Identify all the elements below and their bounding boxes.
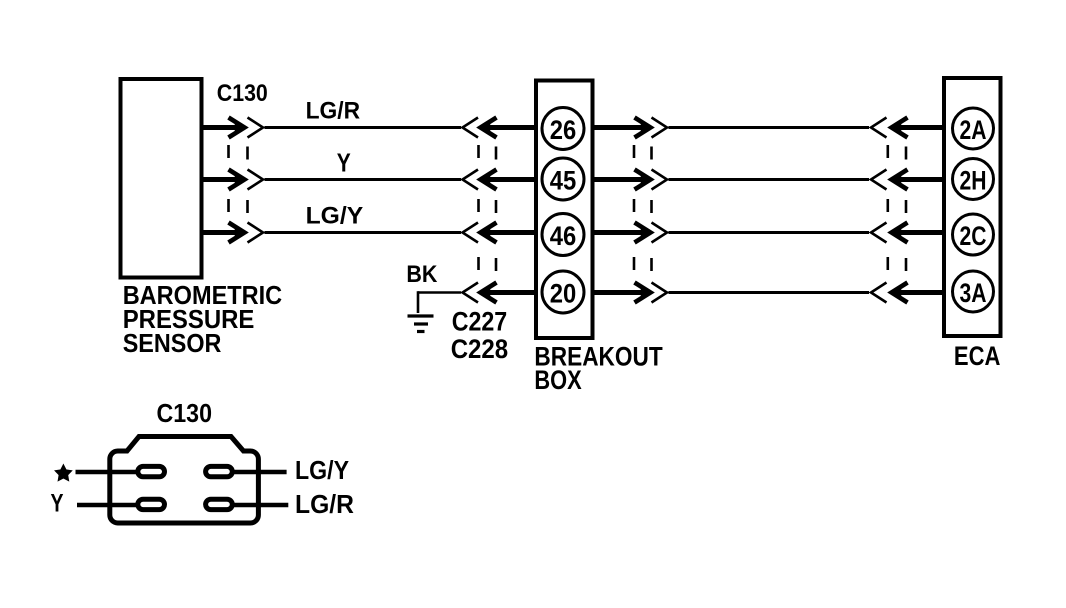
breakout pin 46 bbox=[542, 214, 584, 256]
wire Y long run bbox=[265, 178, 462, 181]
svg-text:3A: 3A bbox=[960, 278, 987, 308]
connector C227/C228 bold chevron row4 bbox=[481, 283, 497, 303]
thick stub into ECA row2 bbox=[898, 177, 944, 182]
svg-text:C130: C130 bbox=[217, 80, 268, 107]
breakout-right connector bold chevron row4 bbox=[635, 283, 651, 303]
thick stub into breakout box row2 bbox=[487, 177, 537, 182]
breakout-right connector dashed line 2 bbox=[650, 147, 653, 272]
svg-text:C130: C130 bbox=[157, 400, 213, 428]
svg-text:Y: Y bbox=[51, 490, 64, 518]
long wire breakout to ECA row1 bbox=[669, 126, 870, 129]
ECA pin 2H bbox=[953, 159, 994, 200]
connector C227/C228 thin chevron row1 bbox=[463, 118, 479, 138]
thick stub into breakout box row1 bbox=[487, 125, 537, 130]
breakout-right connector thin chevron row2 bbox=[652, 170, 668, 190]
svg-text:2H: 2H bbox=[960, 165, 987, 195]
ECA pin 2A bbox=[953, 108, 994, 149]
ECA connector dashed line 1 bbox=[886, 145, 889, 270]
svg-text:20: 20 bbox=[550, 278, 577, 308]
connector C130 pin slot top-left bbox=[138, 466, 165, 476]
ECA box bbox=[944, 78, 1001, 336]
svg-text:26: 26 bbox=[550, 115, 577, 145]
connector C227/C228 thin chevron row2 bbox=[463, 170, 479, 190]
ECA connector thin chevron row1 bbox=[871, 118, 887, 138]
wire LG/R pin bbox=[232, 503, 288, 508]
ECA connector bold chevron row4 bbox=[892, 283, 908, 303]
connector C130 pin slot top-right bbox=[206, 466, 233, 476]
svg-text:46: 46 bbox=[550, 221, 577, 251]
barometric pressure sensor box bbox=[121, 79, 202, 278]
connector C130 bold chevron row1 bbox=[229, 118, 245, 138]
svg-text:LG/Y: LG/Y bbox=[295, 455, 349, 485]
wire Y pin bbox=[77, 503, 138, 508]
wire BK drop bbox=[417, 291, 420, 313]
svg-text:BOX: BOX bbox=[534, 365, 581, 395]
wire stub from sensor row2 bbox=[202, 177, 241, 182]
breakout pin 45 bbox=[542, 158, 584, 200]
svg-text:2A: 2A bbox=[960, 115, 987, 145]
connector C227/C228 dashed line 1 bbox=[477, 145, 480, 270]
thick stub into breakout box row3 bbox=[487, 230, 537, 235]
connector C130 dashed line 1 bbox=[227, 145, 230, 212]
breakout-right connector dashed line 1 bbox=[633, 145, 636, 270]
breakout-right connector bold chevron row2 bbox=[635, 170, 651, 190]
connector C130 dashed line 2 bbox=[246, 147, 249, 214]
ECA connector bold chevron row1 bbox=[892, 118, 908, 138]
connector C130 bold chevron row2 bbox=[229, 170, 245, 190]
long wire breakout to ECA row4 bbox=[669, 291, 870, 294]
long wire breakout to ECA row3 bbox=[669, 231, 870, 234]
wire stub from sensor row3 bbox=[202, 230, 241, 235]
ECA pin 3A bbox=[953, 271, 994, 312]
connector C130 thin chevron row1 bbox=[248, 118, 264, 138]
breakout-right connector thin chevron row4 bbox=[652, 283, 668, 303]
star mark bbox=[56, 465, 72, 480]
thick stub into ECA row3 bbox=[898, 230, 944, 235]
connector C130 bold chevron row3 bbox=[229, 223, 245, 243]
breakout-right connector bold chevron row3 bbox=[635, 223, 651, 243]
connector C130 pin slot bottom-left bbox=[138, 499, 165, 509]
svg-text:LG/R: LG/R bbox=[306, 98, 361, 125]
svg-text:C227: C227 bbox=[452, 306, 508, 336]
svg-text:2C: 2C bbox=[960, 221, 987, 251]
svg-text:LG/Y: LG/Y bbox=[306, 203, 364, 230]
ECA connector dashed line 2 bbox=[905, 147, 908, 272]
ECA connector bold chevron row3 bbox=[892, 223, 908, 243]
connector C130 thin chevron row3 bbox=[248, 223, 264, 243]
thick stub out of breakout box row1 bbox=[593, 125, 648, 130]
thick stub out of breakout box row4 bbox=[593, 290, 648, 295]
long wire breakout to ECA row2 bbox=[669, 178, 870, 181]
ECA connector bold chevron row2 bbox=[892, 170, 908, 190]
wire star pin bbox=[76, 470, 139, 475]
svg-text:45: 45 bbox=[550, 165, 577, 195]
connector C130 pin slot bottom-right bbox=[206, 499, 233, 509]
svg-text:C228: C228 bbox=[451, 334, 509, 364]
connector C227/C228 bold chevron row1 bbox=[481, 118, 497, 138]
wire LG/Y long run bbox=[265, 231, 462, 234]
breakout-right connector thin chevron row3 bbox=[652, 223, 668, 243]
connector C227/C228 bold chevron row3 bbox=[481, 223, 497, 243]
thick stub into breakout box row4 bbox=[487, 290, 537, 295]
connector C130 body outline bbox=[110, 437, 259, 524]
svg-text:Y: Y bbox=[337, 148, 351, 178]
breakout pin 20 bbox=[542, 271, 584, 313]
ground symbol bbox=[408, 316, 434, 332]
ECA connector thin chevron row2 bbox=[871, 170, 887, 190]
thick stub into ECA row4 bbox=[898, 290, 944, 295]
breakout-right connector thin chevron row1 bbox=[652, 118, 668, 138]
connector C227/C228 thin chevron row3 bbox=[463, 223, 479, 243]
wire stub from sensor row1 bbox=[202, 125, 241, 130]
ECA connector thin chevron row3 bbox=[871, 223, 887, 243]
connector C227/C228 bold chevron row2 bbox=[481, 170, 497, 190]
ECA connector thin chevron row4 bbox=[871, 283, 887, 303]
ECA pin 2C bbox=[953, 214, 994, 255]
svg-text:SENSOR: SENSOR bbox=[123, 328, 222, 358]
wire LG/Y pin bbox=[232, 470, 287, 475]
breakout pin 26 bbox=[542, 108, 584, 150]
connector C227/C228 dashed line 2 bbox=[495, 147, 498, 272]
svg-text:LG/R: LG/R bbox=[295, 489, 354, 519]
breakout-right connector bold chevron row1 bbox=[635, 118, 651, 138]
svg-text:BK: BK bbox=[406, 261, 438, 288]
wire LG/R long run bbox=[265, 126, 462, 129]
thick stub into ECA row1 bbox=[898, 125, 944, 130]
connector C227/C228 thin chevron row4 bbox=[463, 283, 479, 303]
breakout box bbox=[536, 81, 593, 339]
wire BK run bbox=[418, 291, 461, 294]
connector C130 thin chevron row2 bbox=[248, 170, 264, 190]
thick stub out of breakout box row3 bbox=[593, 230, 648, 235]
thick stub out of breakout box row2 bbox=[593, 177, 648, 182]
svg-text:ECA: ECA bbox=[954, 341, 1001, 371]
